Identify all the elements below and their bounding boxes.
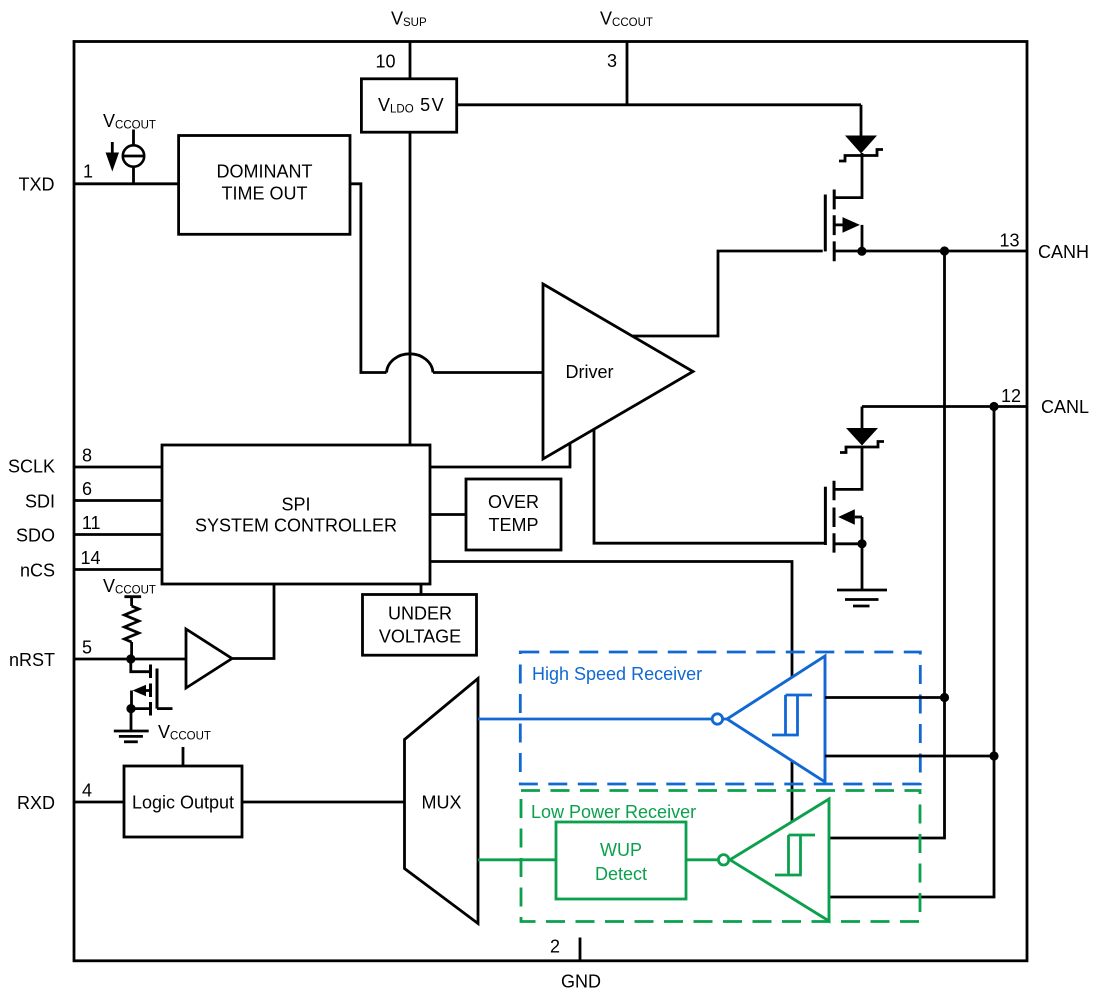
svg-text:CANH: CANH [1038,242,1089,262]
svg-text:SPI: SPI [281,495,310,515]
wire SDI [74,499,162,502]
resistor R1 [124,597,141,659]
transistor Q1 (CANH high-side) [825,153,862,261]
svg-text:CANL: CANL [1041,397,1089,417]
wire WUP to comparator U4 [686,858,730,861]
junction Q3 source [126,704,135,713]
svg-text:VCCOUT: VCCOUT [600,9,653,30]
svg-text:4: 4 [82,781,92,801]
svg-text:UNDER: UNDER [388,604,452,624]
wire VSUP to VLDO [409,42,412,79]
wire SCLK [74,466,162,469]
wire GND pin tick [579,938,582,961]
svg-text:12: 12 [1001,386,1021,406]
svg-text:VCCOUT: VCCOUT [158,722,211,743]
wire SPI to OVER TEMP [430,513,466,516]
svg-text:Logic Output: Logic Output [132,793,234,813]
svg-text:RXD: RXD [17,793,55,813]
svg-text:11: 11 [82,513,101,533]
comparator U3 triangle [727,656,825,782]
junction nRST node [126,654,135,663]
transistor Q3 (nRST) [131,659,173,716]
svg-text:14: 14 [80,548,100,568]
wire driver to low-side gate Q2 [594,430,824,543]
mux MUX [405,679,479,924]
junction CANL receiver tap [989,751,998,760]
wire MUX to WUP detect [478,858,556,861]
svg-text:1: 1 [83,162,93,182]
wire VLDO down to SPI controller [409,132,412,445]
wire VLDO output to zener D1 [457,103,861,106]
svg-text:SDI: SDI [25,492,55,512]
block WUP Detect [556,822,686,899]
svg-text:5: 5 [82,638,92,658]
wire U3 input from CANH [825,696,945,699]
op-amp Driver [543,284,693,459]
wire CANL [862,405,1027,408]
wire MUX to high speed receiver [478,718,727,721]
svg-text:nCS: nCS [20,561,55,581]
svg-text:SCLK: SCLK [8,457,55,477]
wire driver to high-side gate Q1 [632,251,823,336]
svg-text:2: 2 [550,937,560,957]
wire SPI to UNDER VOLTAGE [420,584,423,595]
svg-text:nRST: nRST [9,650,55,670]
dashed box Low Power Receiver [521,791,920,922]
junction CANH to receiver [940,246,949,255]
svg-text:8: 8 [82,446,92,466]
svg-text:TXD: TXD [19,175,55,195]
wire CANL down to receivers [829,407,994,898]
block DOMINANT TIME OUT [179,136,350,235]
wire U3 input from CANL [825,755,994,758]
wire VCCOUT to Logic Output [182,747,185,766]
svg-text:VSUP: VSUP [391,9,427,30]
svg-text:Detect: Detect [595,864,647,884]
junction CANH receiver tap [940,693,949,702]
svg-text:MUX: MUX [422,793,462,813]
svg-text:VOLTAGE: VOLTAGE [379,627,461,647]
svg-text:GND: GND [561,972,601,992]
svg-text:3: 3 [607,51,617,71]
svg-text:13: 13 [999,231,1019,251]
wire CANH [862,250,1027,253]
ground (nRST) [114,731,149,742]
svg-text:OVER: OVER [488,492,539,512]
svg-text:VCCOUT: VCCOUT [103,576,156,597]
wire SPI to driver enable [430,444,570,468]
junction CANH source [857,247,866,256]
wire RXD [74,801,124,804]
svg-text:Low Power Receiver: Low Power Receiver [531,802,696,822]
outer IC boundary box [74,42,1027,961]
wire SPI to low power receiver enable [430,562,792,825]
buffer U2 (nRST) [186,629,232,688]
transistor Q2 (CANL low-side) [825,447,862,553]
zener D1 [839,105,883,161]
comparator U4 (low power) bubble [718,855,728,865]
svg-text:Driver: Driver [566,362,614,382]
block OVER TEMP [466,479,561,550]
wire Q3 source to ground [130,709,133,731]
wire Q2 source to ground [861,544,864,590]
current source I1 [123,130,144,184]
wire nRST [74,658,186,661]
svg-text:VCCOUT: VCCOUT [103,111,156,132]
wire SDO [74,533,162,536]
svg-text:6: 6 [82,479,92,499]
svg-text:10: 10 [375,52,395,72]
wire nCS [74,568,162,571]
regulator VLDO 5V [361,79,456,132]
svg-text:SYSTEM CONTROLLER: SYSTEM CONTROLLER [195,516,397,536]
zener D2 [840,407,884,453]
wire DTO output to driver input (left of hop) [350,184,387,373]
wire CANH down to receivers [829,251,945,838]
svg-text:WUP: WUP [600,840,642,860]
svg-text:DOMINANT: DOMINANT [217,162,313,182]
ground (Q2 source) [837,590,887,606]
hysteresis symbol U3 [772,695,812,735]
wire buffer output to SPI [232,584,274,659]
wire pin3 to VLDO output [626,42,629,105]
block UNDER VOLTAGE [363,595,477,656]
svg-text:TEMP: TEMP [488,515,538,535]
wire hop to driver input (right of hop) [433,371,543,374]
block Logic Output [124,766,242,837]
junction Q2 source [857,539,866,548]
current direction arrow [106,142,119,172]
svg-text:SDO: SDO [16,526,55,546]
dashed box High Speed Receiver [520,652,920,784]
wire Logic Output to MUX [242,801,405,804]
junction CANL to receiver [989,402,998,411]
comparator U3 (high speed) bubble [712,714,722,724]
svg-text:High Speed Receiver: High Speed Receiver [532,664,702,684]
hysteresis symbol U4 [775,835,815,875]
wire hop over VLDO line [387,354,434,373]
wire TXD input [74,182,179,185]
block SPI SYSTEM CONTROLLER [162,445,430,584]
comparator U4 triangle [730,799,829,921]
svg-text:TIME OUT: TIME OUT [222,184,308,204]
